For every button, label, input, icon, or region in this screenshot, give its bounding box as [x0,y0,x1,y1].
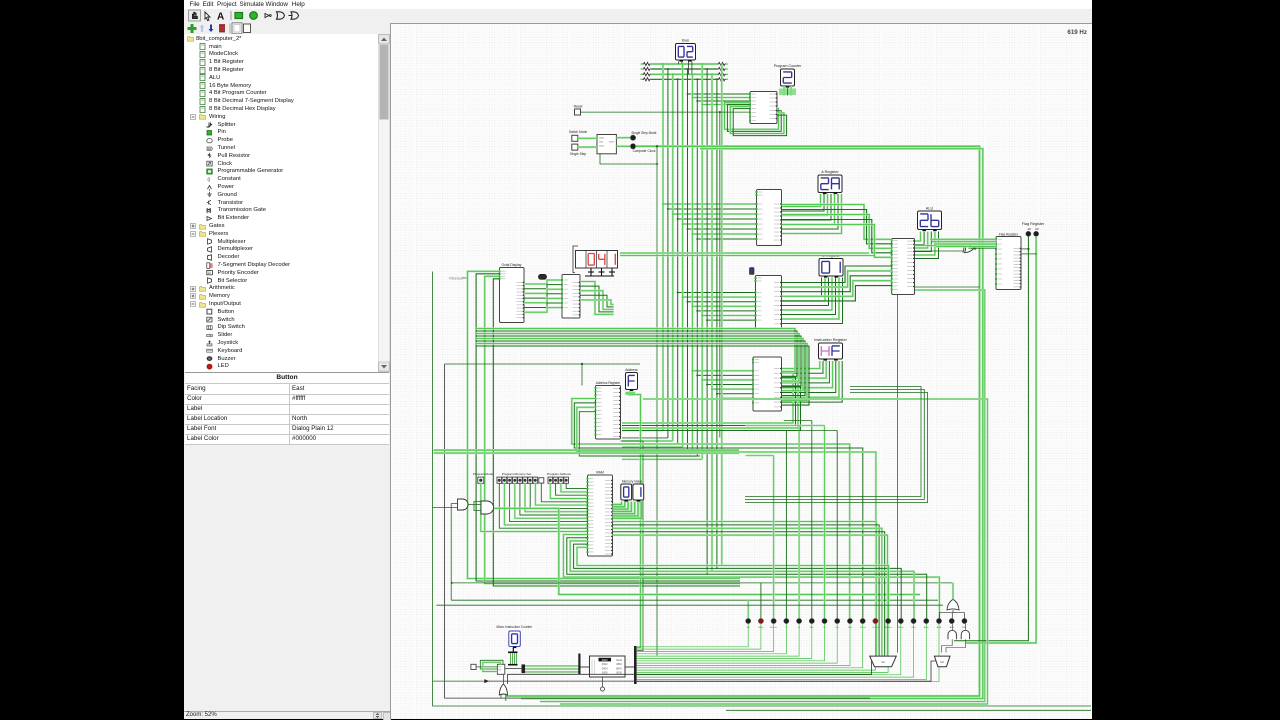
extra button [539,477,544,482]
instruction register U4 [752,357,782,411]
splitter under micro display [508,648,518,665]
wire: ROM to splitter2 [625,666,634,668]
wire: ALU bottom down [897,294,899,652]
wire band: micro counter bus [525,665,579,673]
svg-text:Address Register: Address Register [596,381,621,385]
OR gate reset micro counter [499,683,507,694]
wire: address display stem [625,391,635,394]
svg-text:Sel: Sel [940,659,944,663]
wire pair: crossing to ALU [620,253,874,256]
wire: horizontal to address register [445,362,640,385]
A register U2 [756,189,782,245]
wire: dark rail to OR region [436,604,943,606]
wire loops: RAM outputs to selector muxes [613,521,888,656]
bus horizontal wires between resistor banks [651,64,718,79]
project tree [185,34,378,372]
wire: mux2 output [484,661,935,681]
bottom wire rails [560,399,1091,710]
wire pair: address area down to microcode band [621,394,644,650]
status bar [184,711,390,720]
wires: pins to ModeClock [578,138,597,147]
svg-text:4862: 4862 [616,662,622,666]
svg-text:Reset: Reset [574,104,583,108]
wire loops: IR right to lower bus [622,372,801,430]
wire: splitter1 to ROM [581,666,590,668]
wire: clock branch down center [656,145,658,655]
svg-text:0004: 0004 [602,666,608,670]
wire staircase: octal display to decoder [524,280,562,312]
svg-text:10: 10 [207,271,211,275]
wire: left gate rail vertical [451,503,453,600]
svg-text:Flag Register: Flag Register [1022,221,1045,225]
tree scrollbar [378,34,390,372]
counter input pin [471,664,498,669]
wire: XOR out to flag register [969,247,997,249]
wires: ALU to XOR [915,245,964,251]
svg-text:Micro Instruction Counter: Micro Instruction Counter [496,625,533,629]
svg-text:Switch Mode: Switch Mode [569,130,587,134]
wire: dark rail y582 [452,581,953,583]
OR gate bottom right [947,599,959,610]
Computer Clock LED [616,143,655,152]
wire loops: driver to red display [580,281,614,314]
svg-text:A: A [217,12,224,23]
XOR gate carry out [965,243,974,252]
svg-text:Program Mode: Program Mode [473,472,494,476]
wire: ROM clock pin [601,677,605,691]
wire loops: around address register [572,398,876,618]
selector mux M1 [870,656,897,667]
svg-text:Fibonacci: Fibonacci [449,276,463,280]
svg-text:Octal Display: Octal Display [502,262,522,266]
AND gates (flags) [948,630,956,639]
7-segment decoder driver U10 [561,274,580,318]
wires: AND gates to muxes [942,623,966,652]
microcode ROM U13 [590,656,626,677]
wire: left rail B [445,364,870,698]
bit extender arrow [484,679,489,683]
wires: or gate [501,674,506,701]
wires: OR gate inputs from last LEDs [939,582,964,618]
red output display "041" [576,250,618,268]
svg-text:Program Address: Program Address [547,472,571,476]
wire: left rail A [433,271,1092,706]
wire bundle: IR display down [782,361,843,402]
main toolbar row 1 [184,9,1092,22]
svg-text:Instruction Register: Instruction Register [814,338,847,342]
wire: reset line [581,111,751,113]
tunnel label Fibonacci [449,276,468,280]
svg-text:Single Step: Single Step [570,152,587,156]
menu bar [184,0,1092,9]
wire loops: A register to ALU [782,204,892,257]
wires: flag register to LED lines [1021,248,1036,253]
selector mux M2 [934,656,950,667]
micro counter box U12 [497,664,504,674]
wires: and gates [433,501,482,510]
wire loops: around micro counter [480,660,503,671]
B register U3 [755,275,782,328]
wire bundle: into octal display from left loop [468,271,741,586]
svg-text:Computer Clock: Computer Clock [633,148,656,152]
svg-text:0A42: 0A42 [616,657,623,661]
schematic canvas [391,24,1092,719]
svg-text:00: 00 [208,146,212,150]
project toolbar row 2 [184,22,390,34]
svg-text:Sel: Sel [881,659,885,663]
AND gate G2 [481,501,494,514]
wire: counter to splitter band [505,667,522,669]
reset line junction and vertical [719,111,721,438]
svg-text:619 Hz: 619 Hz [1067,29,1087,36]
wire: clock loop third [540,290,985,702]
probe oval [539,274,547,279]
wire: into arrow from left [433,680,485,682]
wire loops below program counter [725,102,787,135]
splitter fan into band [522,664,526,673]
ModeClock subcircuit box [597,134,616,153]
wire: ALU lower right [915,286,980,288]
svg-text:Memory Value: Memory Value [622,479,643,483]
Program Address buttons [547,472,571,483]
svg-text:6841: 6841 [616,666,622,670]
wire: ZF vertical [954,236,1030,640]
svg-text:MaIn: MaIn [758,626,764,628]
wire: ModeClock bottom branch [600,153,658,164]
wire bundle: A display down to register [782,194,842,234]
control word LEDs row [746,618,968,628]
Program Memory Set buttons [497,472,538,483]
svg-text:Bus: Bus [682,37,689,42]
splitter bar 2 [634,646,637,684]
wire: display input top left [573,246,578,273]
flag register labels and LEDs [1022,221,1045,236]
AND gate G1 [458,499,469,510]
dark rings right side [745,386,928,502]
black stems under red display [585,268,615,276]
svg-text:Flag Register: Flag Register [999,232,1019,236]
svg-text:0000: 0000 [602,657,608,661]
wire loops: RAM around-bottom nest to LED risers [563,534,939,618]
wire fan: memory value to RAM [613,501,642,518]
svg-text:ACin: ACin [924,625,930,628]
svg-text:Program Memory Set: Program Memory Set [502,472,532,476]
wire bundle: into flag register top pins [930,239,996,246]
wire loops: B register to ALU [782,266,892,301]
svg-text:PCad: PCad [860,626,866,628]
wire fan: buttons to RAM [481,483,588,531]
svg-text:Program Counter: Program Counter [774,64,802,68]
wire: mux1 output [508,661,872,684]
wire bundle: main horizontal band to IR loop [476,328,809,405]
wire: CF vertical [966,236,1037,643]
wire bundle: bus display pins down to bus rows [678,61,692,79]
wire fan: control word band to LEDs [637,623,939,681]
wires: program counter display to box [779,86,796,96]
properties table [185,372,389,444]
svg-text:CF: CF [1035,226,1039,230]
wire pair: lower horizontal rails [434,450,740,453]
program counter U7 (4 Bit Program Counter) [749,91,777,123]
svg-text:0002: 0002 [602,662,608,666]
pull resistor bank right of bus [718,62,729,81]
wire bundle: ALU display to ALU [915,231,939,258]
svg-text:Address: Address [625,367,638,371]
central bus ladder [622,63,757,575]
probe beside B register [750,267,755,274]
svg-text:0: 0 [208,177,211,183]
wire: computer clock main loop [506,146,980,696]
ModeClock input pins [569,130,587,156]
wire: gate2 output to lower rail [494,508,920,594]
ALU U5 [891,238,915,294]
wire: clock loop inner pair [521,148,983,698]
wire bundle: B display down to register [782,277,843,323]
svg-text:ZF: ZF [1028,226,1032,230]
svg-text:RAM: RAM [596,470,604,474]
svg-text:Single Step Mode: Single Step Mode [631,131,656,135]
wire: dark rail y599 [451,599,938,601]
svg-text:RAMin: RAMin [885,625,892,628]
pull resistor bank left of bus [641,62,651,81]
wire risers: LEDs up into circuit [745,420,837,618]
splitter bar 1 [578,653,580,674]
svg-text:A Register: A Register [821,170,839,174]
Reset input pin [574,104,583,115]
svg-text:ALU: ALU [926,206,934,210]
Single Step Mode LED [616,131,656,140]
Program Mode input [473,472,494,483]
